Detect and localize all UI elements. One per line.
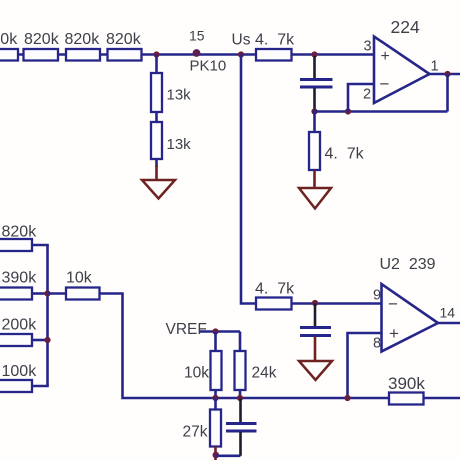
svg-text:Us: Us <box>232 32 251 49</box>
pin label 14 (U2) <box>440 305 456 321</box>
wire VREF corner to R16 top <box>239 332 242 352</box>
svg-text:VREF: VREF <box>166 321 207 338</box>
svg-text:820k: 820k <box>0 31 18 48</box>
wire R14 to bottom bus (corner) <box>100 294 460 399</box>
resistor R18 390k (on bottom bus) <box>389 393 424 405</box>
wire R10 to ladder bus <box>32 292 48 295</box>
svg-text:10k: 10k <box>184 365 209 382</box>
value label 13k (R6) <box>167 136 192 153</box>
resistor R1 820k (cut at left edge) <box>0 49 18 61</box>
wire R15 bottom to bus <box>214 390 217 398</box>
wire vertical from Us node down to R11 <box>241 55 256 304</box>
svg-text:−: − <box>380 75 390 94</box>
junction R17 bottom / C3 <box>213 452 220 459</box>
wire R9 to ladder bus <box>32 244 49 247</box>
part label U2 239 <box>380 256 436 273</box>
wire R13 to ladder bus <box>32 385 49 388</box>
wire stem junction to C2 <box>314 304 317 328</box>
value label 13k (R5) <box>167 87 192 104</box>
value label 100k (R13) <box>2 363 38 380</box>
resistor R14 10k <box>66 288 100 300</box>
resistor R13 100k (ladder, cut at left) <box>0 380 32 392</box>
wire U1 pin2 branch vertical <box>347 84 350 112</box>
wire R11 to U2 pin9 <box>292 302 383 305</box>
resistor R16 24k (vertical) <box>235 351 246 390</box>
wire C3 bottom link horizontal <box>216 454 241 457</box>
value label 24k (R16) <box>252 365 277 382</box>
junction U1 output to feedback <box>444 71 450 77</box>
svg-text:−: − <box>388 295 398 314</box>
wire U1 pin2 horizontal <box>347 83 375 86</box>
pin label 8 (U2) <box>373 336 381 352</box>
resistor R3 820k <box>66 49 100 61</box>
svg-text:4. 7k: 4. 7k <box>325 146 365 163</box>
wire R16 bottom to bus <box>239 390 242 398</box>
resistor R11 4.7k (before U2) <box>256 298 292 310</box>
capacitor C1 <box>300 80 333 88</box>
resistor R7 4.7k (top, before U1) <box>256 49 292 61</box>
junction ladder bus at 390k row <box>44 290 50 296</box>
resistor R12 200k (ladder, cut at left) <box>0 334 32 346</box>
ground stem under R8 <box>313 170 316 188</box>
svg-text:8: 8 <box>373 336 381 352</box>
wire stem from top wire into C1 <box>313 56 316 79</box>
svg-text:820k: 820k <box>106 31 142 48</box>
svg-text:+: + <box>381 48 390 65</box>
svg-text:2: 2 <box>363 87 371 103</box>
ground stem under C2 <box>314 337 317 362</box>
ground stem under 13k chain <box>155 165 158 180</box>
resistor R2 820k <box>24 49 59 61</box>
junction Us node on top wire <box>238 51 244 57</box>
resistor R10 390k (ladder, cut at left) <box>0 288 32 300</box>
junction R11 wire to C2 <box>312 300 318 306</box>
wire U2 output <box>438 322 460 325</box>
svg-text:13k: 13k <box>167 136 192 153</box>
junction bus to U2 pin8 branch <box>344 395 350 401</box>
ground symbol under R8 <box>299 188 331 209</box>
value label 820k (R9) <box>2 224 38 241</box>
ground symbol under 13k chain <box>142 180 175 199</box>
pin label 9 (U2) <box>373 288 381 304</box>
net label Us <box>232 32 251 49</box>
resistor R9 820k (ladder, cut at left) <box>0 239 32 251</box>
wire stem junction to R8 <box>313 112 316 133</box>
pin label 2 (U1) <box>363 87 371 103</box>
wire vertical from top wire down to 13k chain <box>155 55 158 168</box>
svg-text:100k: 100k <box>2 363 38 380</box>
svg-text:3: 3 <box>364 39 372 55</box>
pin label 15 <box>189 28 205 44</box>
junction ladder bus at 200k row <box>44 337 50 343</box>
pin label 3 (U1) <box>364 39 372 55</box>
svg-text:200k: 200k <box>2 317 38 334</box>
svg-text:1: 1 <box>431 59 439 75</box>
wire ladder bus to R14 <box>48 292 67 295</box>
value label 820k (R3) <box>65 31 101 48</box>
svg-text:390k: 390k <box>388 374 425 393</box>
pin label 1 (U1) <box>431 59 439 75</box>
net label PK10 <box>190 58 227 75</box>
resistor R15 10k (vertical) <box>211 351 222 390</box>
wire ladder bus vertical <box>46 245 49 386</box>
wire top main horizontal to op-amp U1 pin3 <box>0 53 374 56</box>
net label VREF <box>166 321 207 338</box>
op-amp U1 <box>374 37 430 104</box>
ground symbol under C2 <box>299 361 332 380</box>
value label 10k (R15) <box>184 365 209 382</box>
part label 224 (U1) <box>391 17 420 37</box>
svg-text:820k: 820k <box>24 31 60 48</box>
svg-text:9: 9 <box>373 288 381 304</box>
wire U1 output <box>430 73 460 76</box>
value label 820k (R2) <box>24 31 60 48</box>
value label 10k (R14) <box>66 270 93 287</box>
op-amp U2 <box>382 284 439 352</box>
resistor R6 13k <box>151 122 162 159</box>
junction C1 / R8 / feedback <box>311 108 317 114</box>
value label 27k (R17) <box>183 424 208 441</box>
wire R17 bottom down <box>214 447 217 460</box>
resistor R4 820k <box>108 49 142 61</box>
resistor R17 27k (vertical) <box>210 410 221 447</box>
svg-text:27k: 27k <box>183 424 208 441</box>
wire stem from C1 down to feedback node <box>313 89 316 112</box>
svg-text:820k: 820k <box>65 31 101 48</box>
value label 390k (R10) <box>2 270 38 287</box>
junction at top wire to 13k divider <box>153 51 159 57</box>
resistor R5 13k <box>151 73 162 112</box>
wire VREF to R15 top <box>214 332 217 352</box>
wire VREF horizontal <box>200 330 240 333</box>
wire U2 pin8 branch <box>348 333 383 398</box>
wire stem C3 to bottom link <box>239 432 242 456</box>
svg-text:24k: 24k <box>252 365 277 382</box>
node 15 dot (PK10) <box>193 49 201 57</box>
svg-text:U2 239: U2 239 <box>380 256 436 273</box>
svg-text:15: 15 <box>189 28 205 44</box>
value label 820k (R4) <box>106 31 142 48</box>
capacitor C2 <box>300 328 331 336</box>
junction VREF to R15 <box>212 328 218 334</box>
svg-text:+: + <box>389 324 399 343</box>
svg-text:390k: 390k <box>2 270 38 287</box>
wire R12 to ladder bus <box>32 339 48 342</box>
svg-text:224: 224 <box>391 17 420 37</box>
svg-text:10k: 10k <box>66 270 93 287</box>
wire bus to R17 top <box>214 398 217 410</box>
svg-text:PK10: PK10 <box>190 58 227 75</box>
junction feedback to U1 pin2 branch <box>345 108 351 114</box>
junction top wire to capacitor C1 <box>311 51 317 57</box>
resistor R8 4.7k (vertical to ground) <box>309 132 320 170</box>
wire feedback vertical right <box>446 74 449 112</box>
svg-text:14: 14 <box>440 305 456 321</box>
junction bus at R15 <box>212 395 218 401</box>
capacitor C3 <box>226 424 257 432</box>
svg-text:13k: 13k <box>167 87 192 104</box>
value label 390k (R18) <box>388 374 425 393</box>
svg-text:820k: 820k <box>2 224 38 241</box>
svg-text:4. 7k: 4. 7k <box>255 32 295 49</box>
svg-text:4. 7k: 4. 7k <box>255 281 295 298</box>
value label 4.7k (R8) <box>325 146 365 163</box>
junction bus at R16 <box>237 395 243 401</box>
value label 820k (R1, partially visible) <box>0 31 18 48</box>
wire feedback horizontal <box>315 110 448 113</box>
value label 4.7k (R7) <box>255 32 295 49</box>
wire stem bus to C3 <box>239 398 242 423</box>
value label 4.7k (R11) <box>255 281 295 298</box>
value label 200k (R12) <box>2 317 38 334</box>
